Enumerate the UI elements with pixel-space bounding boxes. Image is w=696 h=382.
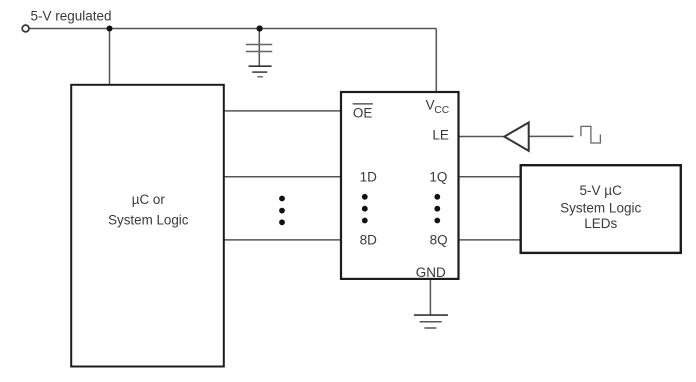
svg-text:CC: CC (434, 105, 449, 116)
svg-text:1D: 1D (360, 169, 378, 184)
svg-text:V: V (426, 97, 435, 112)
svg-text:5-V regulated: 5-V regulated (31, 8, 112, 23)
svg-text:µC or: µC or (132, 192, 166, 207)
svg-text:8Q: 8Q (430, 232, 448, 247)
svg-text:LEDs: LEDs (584, 216, 617, 231)
svg-text:System Logic: System Logic (560, 200, 641, 215)
svg-text:LE: LE (432, 128, 449, 143)
svg-text:8D: 8D (360, 232, 378, 247)
svg-text:GND: GND (416, 265, 446, 280)
svg-text:OE: OE (353, 105, 373, 120)
svg-text:System Logic: System Logic (108, 212, 189, 227)
svg-text:5-V µC: 5-V µC (580, 183, 623, 198)
svg-text:1Q: 1Q (429, 169, 447, 184)
